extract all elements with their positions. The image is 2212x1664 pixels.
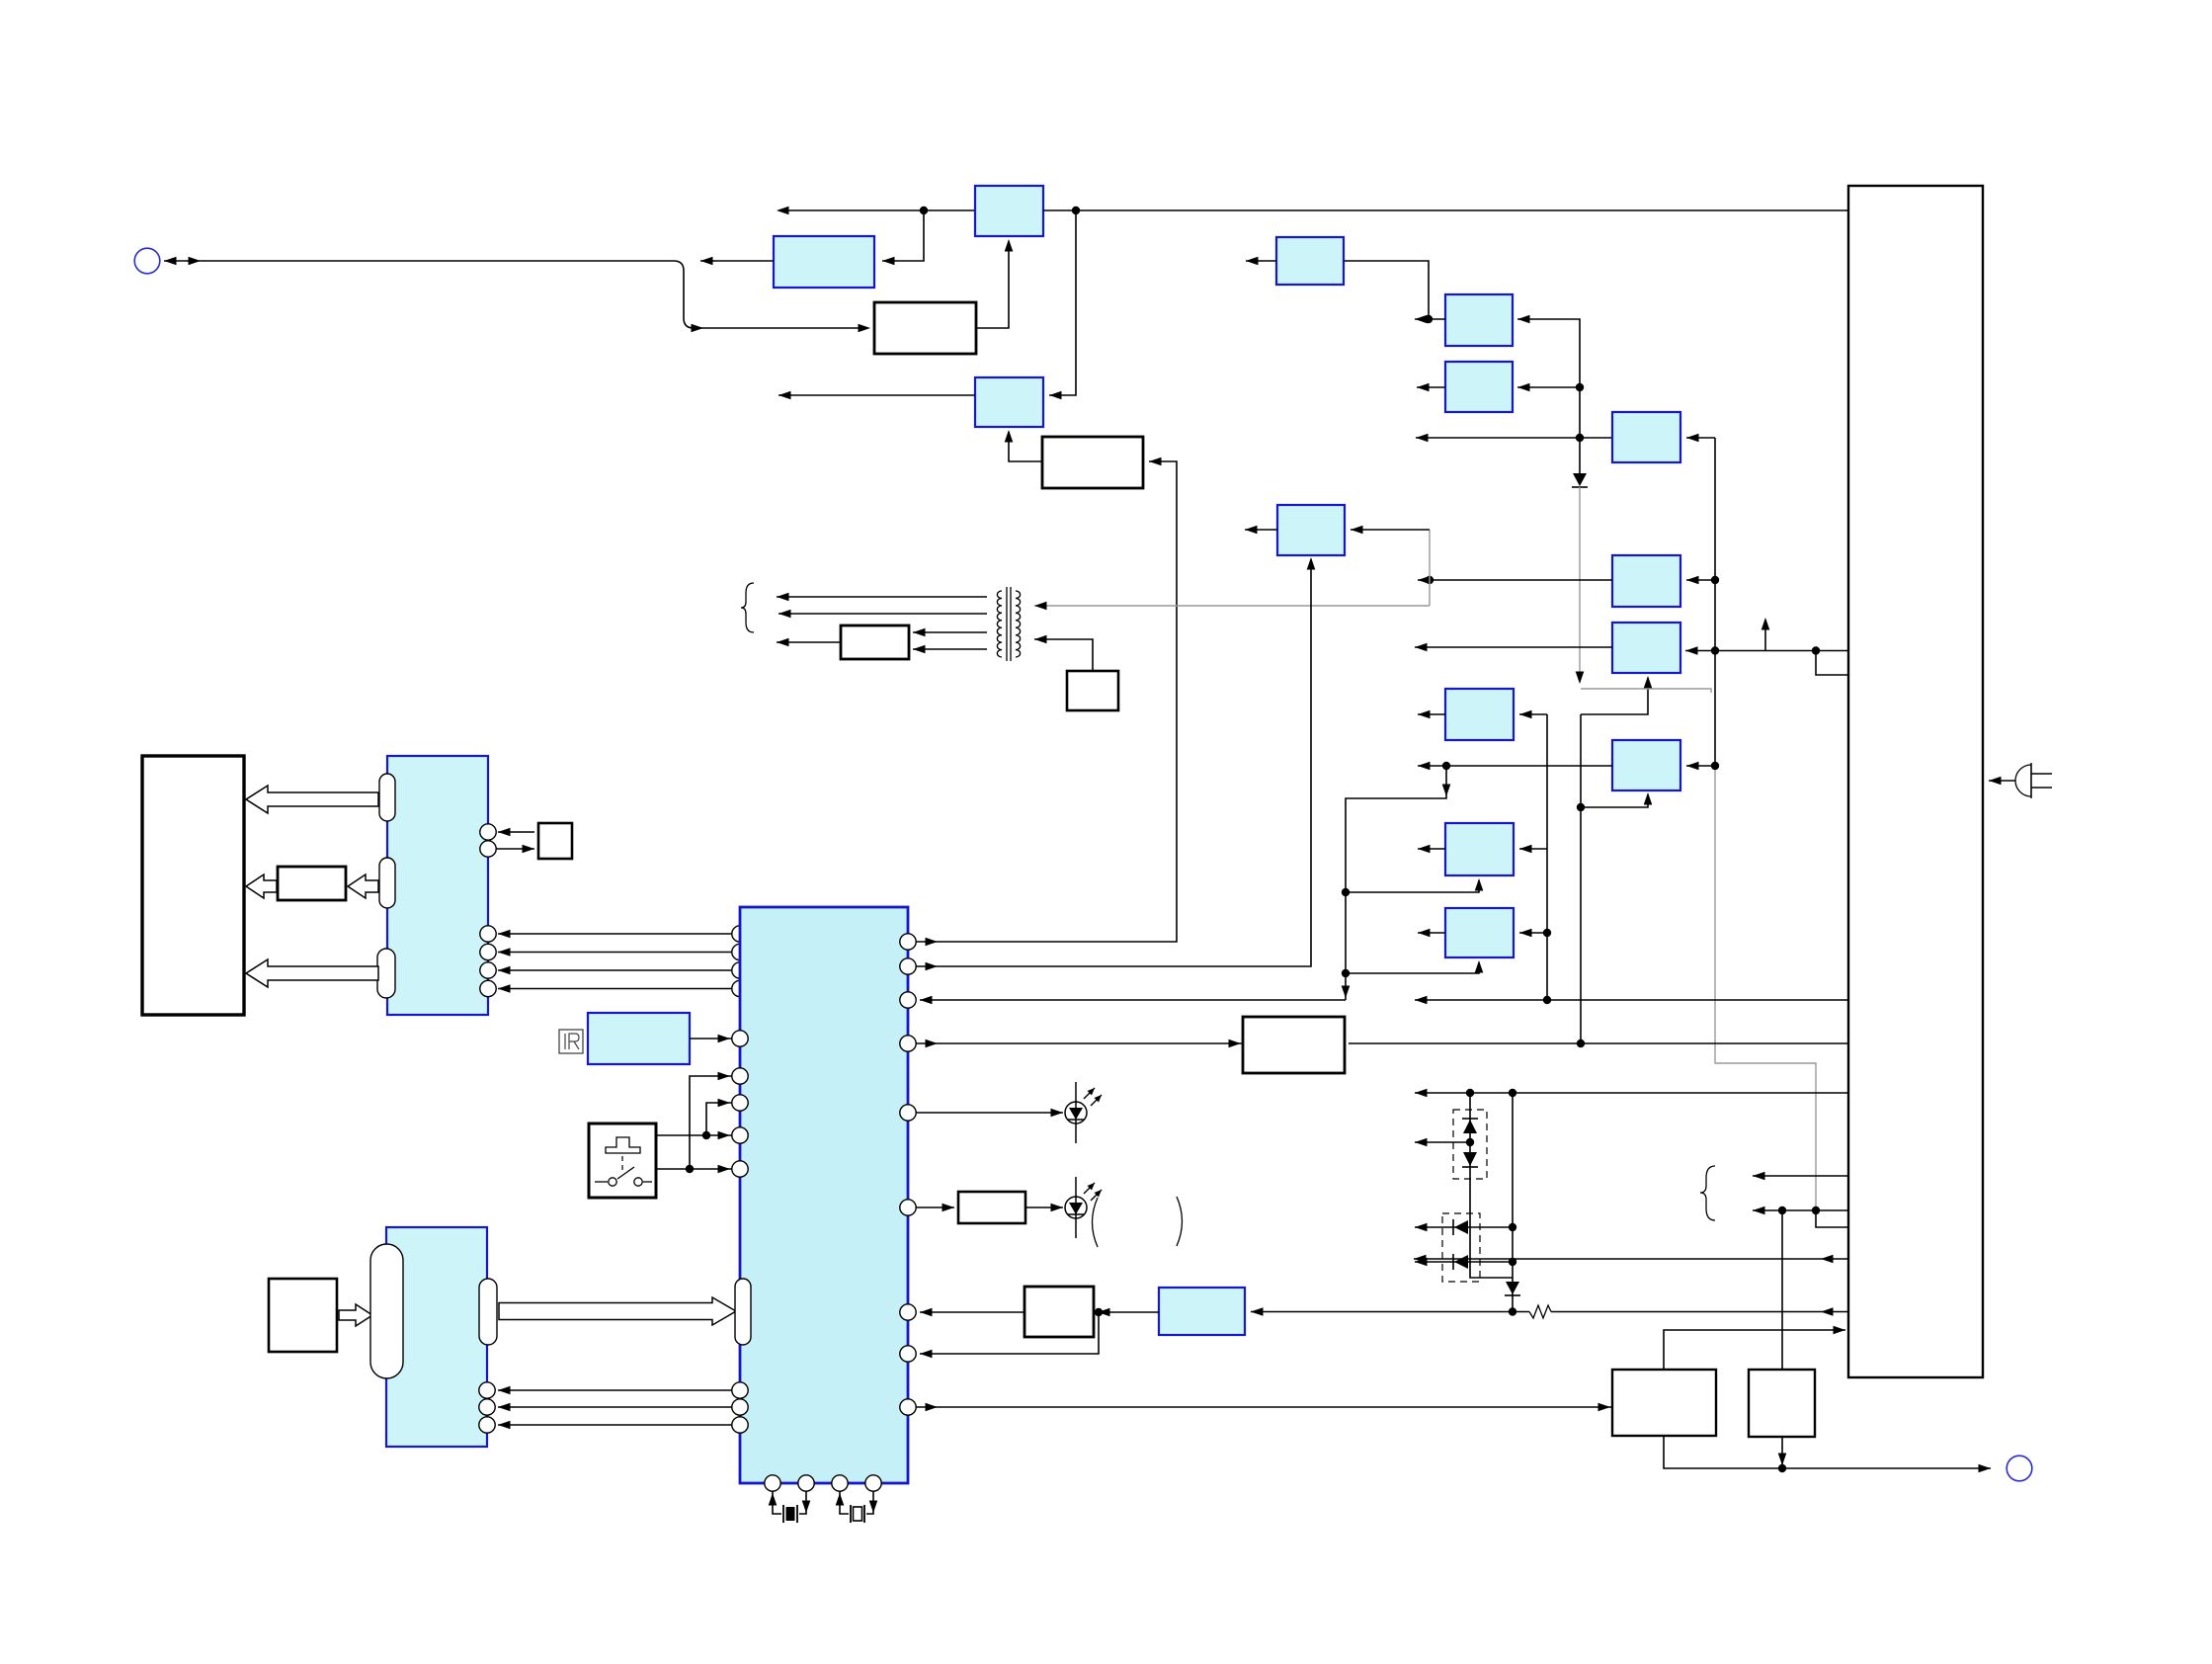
wire: plug to U5 — [1989, 777, 2015, 786]
block B5 (white, under B4) — [1042, 437, 1143, 488]
big bus arrow U3 to U1 — [499, 1297, 736, 1325]
LED1 — [1065, 1082, 1102, 1143]
wire: vertical x1599 with taps feeding I and J — [1517, 315, 1584, 473]
diode D2 at bottom of x1531 — [1505, 1282, 1520, 1295]
wire: K input from vertical x1736 — [1686, 434, 1719, 766]
bus arrow tuner to U3 — [339, 1304, 372, 1326]
wire: M output left at y587 — [1418, 576, 1612, 585]
key/switch block (white, thick) — [589, 1123, 656, 1198]
wire: y1274 stub line from U5 — [1414, 1255, 1848, 1264]
wire: y1012 line left segment to IC pin R3 — [920, 996, 1346, 1005]
connector stadium pin on U2 left (bottom) — [377, 949, 395, 998]
wire: B5 left edge up into B4 bottom — [1005, 430, 1042, 461]
wire: U5 output y1225 with step — [1753, 1206, 1848, 1227]
block B2 (cyan, wide) — [774, 236, 874, 288]
wire: X2 top vertical to node y1225 — [1781, 1210, 1783, 1370]
brace { for transformer primary group — [741, 583, 754, 632]
diode D1 on vertical x1599 — [1572, 473, 1588, 487]
wire: gray elbow y697 to x1736 — [1581, 689, 1711, 693]
pins U1 left edge (bus of 4) — [732, 926, 748, 997]
wire: secondary top tap (gray) to node x1447 — [1034, 602, 1430, 611]
pins U1 left (key matrix) — [732, 1068, 748, 1177]
wire: y658 feed line from power block U5 — [1685, 646, 1848, 675]
diode pack DP2 (dashed, two left diodes) — [1442, 1213, 1480, 1282]
wire: y1327 line from U5 through resistor to N — [1251, 1307, 1848, 1316]
pin U1 left (IR) — [732, 1031, 748, 1046]
block R (cyan) — [1445, 823, 1514, 875]
block B4 (cyan, second row) — [975, 377, 1043, 427]
main microcontroller U1 (big cyan) — [740, 907, 908, 1483]
wire: box B1 output left at y213 — [777, 207, 975, 215]
diode bridge pack DP1 (dashed) — [1453, 1110, 1487, 1179]
wire: DP2 row2 — [1415, 1258, 1516, 1267]
bus arrow U2 to LCD (bottom) — [246, 959, 378, 987]
LCD block (white, thick border) — [142, 756, 244, 1015]
block S (cyan) — [1445, 908, 1514, 957]
wire: J output left stub — [1417, 383, 1445, 392]
wire: y213 bus from B1 to power block U5 — [1043, 207, 1848, 214]
wire: S output left stub — [1418, 929, 1445, 938]
block J (cyan) — [1445, 362, 1513, 412]
wire: x1362 column feeding R,S bottoms — [1342, 766, 1484, 1000]
wire: B4 output left — [778, 391, 975, 400]
block F1 (small white, below transformer) — [1067, 671, 1118, 710]
stub arrow up from y658 line — [1761, 618, 1770, 651]
wire: pin R2 right and up into E bottom — [916, 557, 1315, 970]
wire: SB to U2 pin — [498, 828, 534, 837]
wire: y1056 line from U5 into W right edge — [1349, 1040, 1848, 1047]
connector stadium on U3 left — [370, 1244, 403, 1378]
wire: B3 out right, up into B1 bottom — [976, 239, 1013, 328]
display driver IC U2 (cyan) — [387, 756, 488, 1015]
block W (white, mid) — [1243, 1017, 1345, 1073]
wire: transformer primary line 1 — [777, 593, 987, 602]
wire: switch lower out to pins 1/4 — [656, 1072, 732, 1174]
wire: vertical x1600 feeding L and P bottoms — [1577, 676, 1652, 1043]
block K (cyan) — [1612, 412, 1680, 462]
block Q (cyan) — [1445, 689, 1514, 740]
wire: X1 top to U5 left edge — [1664, 1326, 1845, 1370]
wire: gray link node587 down to transformer line and up to E — [1429, 530, 1431, 606]
block F2 (white, on primary lines) — [841, 625, 909, 659]
block B3 (white, under B1) — [874, 302, 976, 354]
resistor block RB (white) — [958, 1192, 1025, 1223]
block P (cyan) — [1612, 740, 1680, 790]
wire: U1->U3 line 1 — [498, 1386, 732, 1395]
wire: y443 line K output left — [1416, 434, 1612, 443]
wire: y1012 line right segment from U5 — [1415, 996, 1848, 1005]
wire: junction y213 down into B2 right edge — [882, 210, 924, 265]
power block U5 (tall, right) — [1848, 186, 1983, 1377]
wire: P output left to node x1464 — [1418, 762, 1612, 771]
wire: transformer primary line 2 — [778, 610, 987, 619]
pins U1 left edge (3) — [732, 1382, 748, 1433]
wire: y1106 line from U5 — [1415, 1089, 1848, 1098]
wire: L output left — [1415, 643, 1612, 652]
crystal X2 (hollow) with leads — [836, 1491, 878, 1523]
block B1 (cyan, top) — [975, 186, 1043, 236]
wire: DP2 row1 — [1415, 1223, 1516, 1232]
wire: H right edge to node on I input line — [1344, 261, 1433, 323]
brace { for U5 outputs y1190/y1225 — [1700, 1166, 1715, 1220]
block N (cyan, mid-left) — [1159, 1288, 1245, 1335]
bus arrow U2 to M1 — [348, 874, 378, 898]
pins U1 bottom edge (4) — [765, 1475, 881, 1491]
block V (white) — [1024, 1287, 1094, 1337]
wire: bus line 2 U1->U2 — [498, 948, 732, 957]
wire: RB to LED2 — [1025, 1204, 1063, 1212]
wire: I output left — [1415, 315, 1445, 324]
block E (cyan, middle) — [1277, 505, 1345, 555]
block H (cyan) — [1276, 237, 1344, 285]
terminal T1 (antenna input, top-left) — [134, 248, 160, 274]
resistor R1 (zigzag) on y1327 line — [1529, 1305, 1551, 1318]
wire: switch upper out to pins 2/3 — [656, 1099, 732, 1140]
wire: V output left to IC pin R7 — [920, 1308, 1024, 1317]
wire: bus line 3 U1->U2 — [498, 966, 732, 975]
wire: long vertical from IC pin to B5 right edge — [916, 458, 1177, 947]
IR remote icon — [559, 1030, 583, 1053]
block M1 (white, between LCD and U2) — [278, 867, 346, 900]
wire: bus line 1 U1->U2 — [498, 930, 732, 939]
wire: transformer primary line 4 into F2 — [913, 645, 987, 654]
bus arrow U2 to LCD (top) — [246, 786, 378, 813]
wire: F2 output left — [777, 638, 841, 647]
wire: N output left, into V and down to IC pin R8 — [920, 1308, 1159, 1359]
parentheses (label removed) — [1093, 1197, 1183, 1247]
block I (cyan) — [1445, 294, 1513, 346]
wire: E output left stub — [1245, 526, 1277, 535]
wire: pin R6 to resistor RB — [916, 1204, 954, 1212]
wire: M input from x1736 node — [1686, 576, 1715, 585]
wire: U2 pin to SB — [496, 845, 534, 854]
key-top symbol inside switch block — [595, 1137, 652, 1186]
wire: vertical from y213 junction down to box B4 right edge — [1049, 210, 1076, 399]
block L (cyan) — [1612, 623, 1680, 673]
wire: vertical x1531 to y1327 line — [1509, 1093, 1516, 1316]
pins U2 right edge (bus of 4) — [480, 926, 496, 997]
wire: IC pin R4 to W left edge — [916, 1040, 1243, 1048]
pins U3 right edge (3) — [479, 1382, 495, 1433]
connector stadium on U1 left — [735, 1279, 751, 1345]
wire: U1->U3 line 2 — [498, 1403, 732, 1412]
wire: bus line 4 U1->U2 — [498, 984, 732, 993]
connector stadium pin on U2 left (top) — [379, 774, 395, 821]
IR receiver block (cyan) — [588, 1013, 690, 1064]
wire: secondary bottom tap into F1 top — [1034, 635, 1093, 671]
wire: U5 output y1190 — [1753, 1172, 1848, 1181]
wire: vertical x1488 through DP1 — [1415, 1093, 1513, 1278]
crystal X1 (filled) with leads — [769, 1491, 811, 1523]
wire: into E right edge — [1351, 526, 1430, 535]
tuner block (white square) — [269, 1279, 337, 1352]
wire: B2 output left to T1 line — [700, 257, 774, 266]
connector stadium on U3 right — [479, 1279, 497, 1345]
wire: IR receiver to U1 pin — [690, 1035, 732, 1043]
block X2 (white, bottom right) — [1749, 1370, 1815, 1437]
pins U2 right edge (backup line pair) — [480, 824, 496, 857]
wire: pin R5 to LED1 — [916, 1109, 1063, 1118]
wire: X1/X2 bottoms to terminal T3 — [1664, 1436, 1991, 1472]
AC plug symbol — [2015, 763, 2052, 798]
wire: U1->U3 line 3 — [498, 1421, 732, 1430]
pins U1 right edge — [900, 934, 916, 1415]
connector stadium pin on U2 left (mid) — [379, 858, 395, 908]
wire: gray path x1736 down to brace line — [1715, 770, 1816, 1206]
wire: rounded elbow down to B3 input — [674, 261, 870, 332]
transformer T2 (power transformer) — [997, 587, 1020, 661]
block X1 (white, bottom right) — [1612, 1370, 1716, 1436]
wire: T1 to corner x692 with arrowheads — [164, 257, 674, 266]
LED2 — [1065, 1177, 1102, 1238]
block M (cyan) — [1612, 555, 1680, 607]
terminal T3 (bottom right) — [2007, 1456, 2032, 1481]
tuner IC U3 (cyan) — [386, 1227, 487, 1447]
wire: P input right from x1736 — [1686, 762, 1719, 771]
bus arrow M1 to LCD — [246, 874, 277, 898]
wire: IC pin R9 out to X1 — [916, 1403, 1612, 1412]
wire: x1566 column — [1519, 710, 1551, 1000]
wire: H output left stub — [1246, 257, 1276, 266]
wire: Q output left stub — [1418, 710, 1445, 719]
wire: gray continuation of x1599 below diode — [1576, 487, 1585, 684]
block SB (small white square) — [538, 823, 572, 859]
wire: transformer primary line 3 into F2 — [913, 628, 987, 637]
wire: R output left stub — [1418, 845, 1445, 854]
